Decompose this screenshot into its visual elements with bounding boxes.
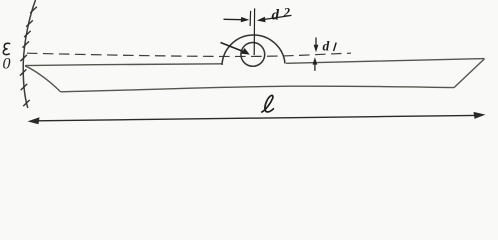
dashed centerline xyxy=(27,53,351,56)
length dimension left arrowhead xyxy=(28,117,40,124)
svg-text:d: d xyxy=(323,39,330,54)
hatch tick 4 on break line xyxy=(23,41,30,47)
bar left bevel end xyxy=(25,66,61,92)
bar top edge left segment xyxy=(25,64,222,66)
paper background xyxy=(0,0,498,132)
hatch tick 7 on break line xyxy=(21,84,28,90)
bar top edge right segment xyxy=(286,59,485,64)
label epsilon xyxy=(3,43,10,54)
label script ell xyxy=(262,95,274,112)
d1 upper dimension arrow pointing down xyxy=(314,38,319,53)
hatch tick 2 on break line xyxy=(26,20,33,26)
length dimension right arrowhead xyxy=(474,112,486,119)
semicircular boss arc xyxy=(222,35,285,65)
d2 right extension line down to hole center xyxy=(253,8,255,55)
label d2 xyxy=(272,5,291,23)
d2 left dimension arrow xyxy=(224,17,250,22)
svg-text:0: 0 xyxy=(3,56,11,73)
svg-text:d: d xyxy=(272,8,280,24)
hatch tick 5 on break line xyxy=(20,55,27,61)
hatch tick 8 on break line xyxy=(23,100,30,106)
d1 lower dimension arrow pointing up xyxy=(313,57,318,71)
hole circle xyxy=(241,43,265,67)
d2 left extension tick xyxy=(249,11,252,26)
bar right bevel end xyxy=(454,59,485,88)
bar bottom edge xyxy=(61,86,455,92)
hatch tick 6 on break line xyxy=(20,69,27,75)
d2 right dimension arrow xyxy=(257,15,292,22)
svg-text:2: 2 xyxy=(283,5,290,19)
hatch tick 1 on break line xyxy=(30,7,37,13)
hatch tick 3 on break line xyxy=(24,31,31,37)
label d1 xyxy=(323,39,337,54)
length dimension line xyxy=(37,115,476,120)
leader arrow to hole center xyxy=(221,43,250,55)
break line (curved broken edge of adjoining body) xyxy=(23,0,35,108)
